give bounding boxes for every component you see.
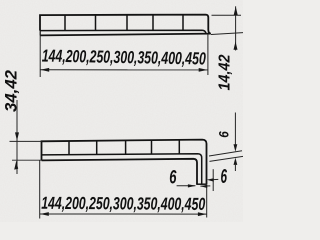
svg-text:34,42: 34,42 <box>2 69 21 112</box>
svg-text:6: 6 <box>169 167 176 189</box>
svg-text:6: 6 <box>221 166 228 188</box>
svg-text:144,200,250,300,350,400,450: 144,200,250,300,350,400,450 <box>41 193 205 214</box>
svg-text:6: 6 <box>215 131 231 138</box>
svg-text:14,42: 14,42 <box>216 54 233 90</box>
svg-text:144,200,250,300,350,400,450: 144,200,250,300,350,400,450 <box>42 46 207 69</box>
